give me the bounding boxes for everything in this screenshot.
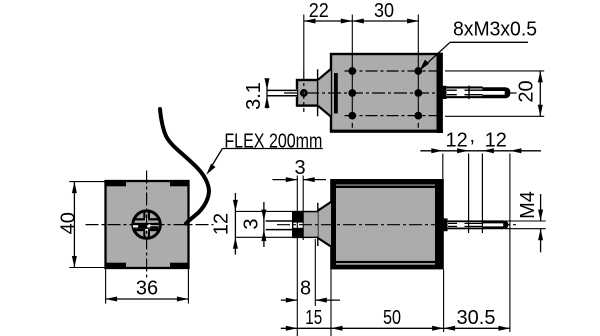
- body square (front view): [106, 181, 189, 268]
- corner tab top-left (front view): [106, 181, 127, 186]
- corner tab bottom-right (front view): [170, 263, 189, 268]
- dimension 8 (side view): [281, 239, 340, 306]
- flange taper top (side view): [318, 202, 331, 211]
- flange taper top (top view): [318, 69, 331, 80]
- centerline vertical (front view): [146, 171, 148, 279]
- svg-text:12: 12: [485, 130, 507, 152]
- label FLEX 200mm with leader: [206, 130, 322, 175]
- svg-text:8xM3x0.5: 8xM3x0.5: [453, 18, 537, 40]
- svg-text:36: 36: [136, 278, 158, 300]
- svg-text:,: ,: [470, 125, 476, 147]
- slot vertical bars (front view): [143, 211, 150, 237]
- dimension 36 (front view): [106, 268, 189, 304]
- dimension M4 (side view, rotated): [505, 191, 546, 252]
- plunger block (top view): [297, 80, 330, 106]
- svg-text:3.1: 3.1: [243, 82, 265, 110]
- dimension 3 hole (side view, top): [272, 157, 326, 336]
- centerline horizontal (side view): [277, 224, 517, 226]
- thread tick lines (side view): [468, 154, 470, 234]
- flange gray fill (side view): [318, 202, 331, 247]
- flex wire: [160, 109, 209, 224]
- flange line (side view): [317, 203, 319, 246]
- dimension 15 (side view): [281, 307, 323, 331]
- svg-text:40: 40: [58, 212, 80, 234]
- washer plate (side view): [292, 212, 304, 237]
- hole row line bottom (top view): [345, 115, 440, 117]
- svg-text:12: 12: [211, 213, 233, 235]
- corner tab top-right (front view): [170, 181, 189, 186]
- dimension 30 (top view): [352, 0, 418, 24]
- shaft collar (side view): [444, 218, 448, 231]
- shaft collar (top view): [443, 86, 447, 99]
- extension line shaft tip (side view): [509, 154, 511, 333]
- dimension 50 (side view): [297, 307, 443, 331]
- chord line lower (front view): [133, 229, 159, 231]
- dimension 12 12 (side view top): [420, 125, 541, 153]
- dimension 3 rod dia (side view, rotated): [241, 202, 267, 247]
- dimension 22 (top view): [304, 0, 419, 24]
- svg-text:20: 20: [516, 80, 538, 102]
- svg-text:30: 30: [374, 0, 394, 22]
- push rod (side view): [266, 220, 292, 230]
- hole row line top (top view): [345, 70, 440, 72]
- slot gap (side view): [293, 223, 303, 228]
- svg-text:M4: M4: [517, 191, 539, 219]
- extension line body left (side view): [330, 269, 332, 336]
- svg-text:3: 3: [241, 218, 263, 229]
- body bottom edge bar (top view): [330, 130, 443, 133]
- threaded shaft (side view): [448, 220, 509, 229]
- hole column line 1 (top view): [351, 15, 353, 120]
- svg-text:50: 50: [383, 307, 401, 329]
- corner tab bottom-left (front view): [106, 263, 127, 268]
- dimension 30.5 (side view): [444, 307, 510, 331]
- centerline horizontal (front view): [86, 224, 214, 226]
- dimension 12 left (side view, rotated): [211, 193, 294, 255]
- body (side view): [330, 179, 444, 269]
- extension line body right upper (side view): [442, 154, 444, 180]
- svg-text:15: 15: [305, 307, 322, 329]
- dimension 20 (top view, rotated): [445, 71, 544, 116]
- extension line body right (side view): [443, 269, 445, 332]
- label 8xM3x0.5 with leader: [420, 18, 538, 70]
- centerline horizontal (top view): [284, 92, 517, 94]
- flange line (top view): [317, 69, 319, 116]
- flange taper bottom (top view): [318, 106, 331, 117]
- chord line upper (front view): [133, 218, 159, 220]
- flange gray fill (top view): [318, 69, 331, 117]
- center hole circle (front view): [133, 211, 160, 238]
- hole column line 2 (top view): [417, 15, 419, 120]
- svg-text:30.5: 30.5: [457, 307, 496, 329]
- dimension 40 (front view, rotated): [58, 182, 106, 268]
- centerline vertical plunger (top view): [303, 15, 305, 71]
- body (top view): [331, 53, 443, 133]
- svg-text:12: 12: [445, 130, 467, 152]
- slot horizontal (front view): [133, 223, 159, 229]
- flange taper bottom (side view): [318, 238, 331, 247]
- cross hole in rod (top view): [301, 90, 306, 95]
- inner pole bar (top view): [334, 73, 338, 113]
- dimension 3.1 (top view, rotated): [243, 78, 269, 110]
- svg-text:3: 3: [294, 157, 305, 179]
- svg-text:8: 8: [300, 277, 311, 299]
- svg-text:22: 22: [309, 0, 329, 22]
- tapped holes 8xM3 (top view): [348, 67, 422, 119]
- push rod (top view): [267, 89, 297, 97]
- guide sleeve (side view): [292, 211, 318, 238]
- threaded shaft (top view): [447, 86, 511, 100]
